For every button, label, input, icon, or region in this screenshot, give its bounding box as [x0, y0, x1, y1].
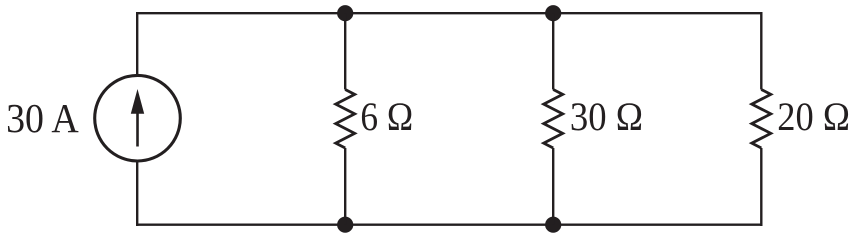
node: top junction at R2	[545, 5, 561, 21]
resistor R3 zigzag	[752, 90, 771, 149]
resistor R1 zigzag	[336, 90, 355, 149]
current source I1 arrow shaft	[136, 108, 139, 147]
current source I1 circle	[95, 75, 181, 161]
resistor R2 zigzag	[544, 90, 563, 149]
node: bottom junction at R2	[545, 217, 561, 233]
node: bottom junction at R1	[337, 217, 353, 233]
wire: bottom bus from source to right edge	[137, 223, 761, 225]
wire: R3 bottom lead (right edge)	[760, 148, 762, 226]
svg-text:6 Ω: 6 Ω	[360, 94, 413, 139]
svg-text:30 Ω: 30 Ω	[570, 94, 643, 139]
wire: R3 top lead (right edge)	[760, 12, 762, 90]
wire: left branch top (source top to top bus)	[136, 12, 138, 76]
node: top junction at R1	[337, 5, 353, 21]
wire: R2 top lead	[552, 13, 554, 89]
svg-text:30 A: 30 A	[6, 95, 79, 141]
wire: R2 bottom lead	[552, 148, 554, 225]
wire: top bus from source to right edge	[137, 12, 761, 14]
wire: R1 bottom lead	[344, 148, 346, 225]
wire: left branch bottom (source bottom to bottom bus)	[136, 161, 138, 226]
wire: R1 top lead	[344, 13, 346, 89]
svg-text:20 Ω: 20 Ω	[777, 94, 850, 139]
current source I1 arrowhead	[131, 89, 144, 114]
